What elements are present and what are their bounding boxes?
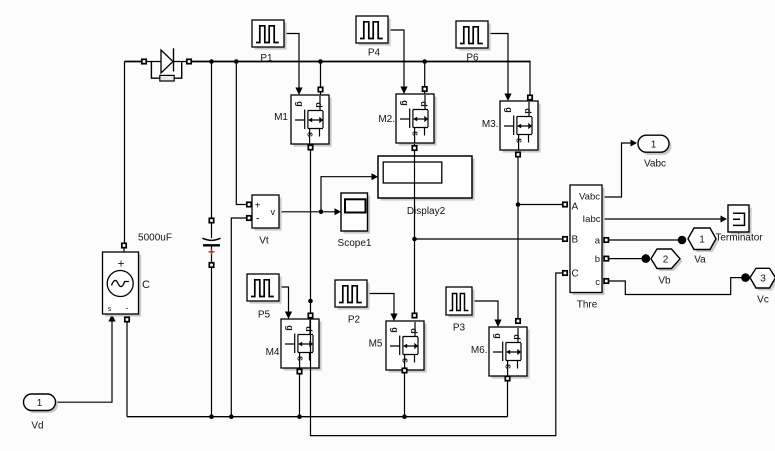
port square Vt plus — [247, 202, 251, 206]
wire: left vertical from bus down to source C top — [124, 62, 126, 245]
port square Thre A — [563, 202, 567, 206]
svg-text:M6.: M6. — [471, 345, 488, 356]
port square M2 source — [412, 146, 416, 150]
svg-text:Display2: Display2 — [407, 206, 446, 217]
wire: top DC bus main segment with drop to M3 drain — [191, 61, 530, 63]
wire: Vt output to Scope1 — [279, 211, 335, 213]
svg-text:M3.: M3. — [482, 119, 499, 130]
pulse generator P2 — [335, 280, 370, 310]
wire: Vd input to source C s-port — [56, 319, 113, 402]
svg-text:Vb: Vb — [658, 276, 671, 287]
svg-text:a: a — [595, 236, 601, 247]
port square M4 source — [297, 369, 301, 373]
wire: bottom negative bus — [127, 416, 508, 418]
svg-text:M4: M4 — [266, 347, 280, 358]
port square M6 source — [505, 376, 509, 380]
junction dot M2 drain top bus — [422, 59, 427, 64]
port square M3 drain — [528, 95, 532, 99]
svg-text:M5: M5 — [369, 339, 383, 350]
display Display2 — [378, 156, 475, 217]
svg-text:Terminator: Terminator — [715, 233, 763, 244]
node dot Vb — [642, 254, 651, 263]
svg-text:1: 1 — [37, 398, 43, 409]
wire: Thre b output to Vb tag — [609, 258, 644, 260]
pulse generator P4 — [356, 16, 391, 46]
arrowhead source C s input — [108, 314, 115, 322]
port square M4 drain — [308, 313, 312, 317]
MOSFET M2 — [396, 94, 437, 146]
svg-text:M2.: M2. — [378, 114, 395, 125]
scope Scope1 — [338, 193, 372, 249]
terminator — [715, 205, 763, 244]
wire: source C bottom to negative bus — [126, 322, 128, 417]
output tag Vc — [750, 268, 775, 305]
port square capacitor top — [209, 218, 213, 222]
junction dot M1 drain top bus — [318, 59, 323, 64]
pulse generator P6 — [456, 21, 491, 51]
diode D with snubber — [146, 48, 187, 81]
svg-text:B: B — [572, 235, 579, 246]
junction on phase B line — [412, 237, 417, 242]
wire: phase A line M1 source through M4 to Thre C input — [311, 144, 563, 436]
port square Thre b — [604, 256, 608, 260]
port square capacitor bottom — [209, 263, 213, 267]
arrowhead M4 gate — [285, 312, 292, 320]
junction dot capacitor top bus — [209, 59, 214, 64]
port square M1 source — [308, 145, 312, 149]
wire: phase B branch to Thre B input — [415, 238, 563, 240]
MOSFET M5 — [386, 321, 427, 373]
node dot Vc — [741, 273, 750, 282]
wire: phase C line M3 source to M6 drain — [517, 152, 519, 324]
output tag Va — [688, 228, 719, 266]
wire: capacitor bottom to negative bus — [211, 246, 213, 417]
wire: P6 output to M3 gate — [488, 34, 508, 96]
output tag Vb — [651, 249, 683, 287]
wire: Thre Vabc output to outport 1 — [602, 143, 631, 197]
wire: M4 source to negative bus — [299, 374, 301, 417]
three-phase measurement Thre — [570, 185, 605, 311]
wire: P1 output to M1 gate — [284, 34, 299, 90]
port square M3 source — [516, 152, 520, 156]
port square M2 drain — [423, 87, 427, 91]
svg-text:P3: P3 — [453, 323, 466, 334]
arrowhead M6 gate — [494, 320, 501, 328]
voltage measurement Vt — [252, 195, 282, 247]
wire: M1 drain from bus — [320, 62, 322, 96]
svg-text:5000uF: 5000uF — [138, 233, 172, 244]
port square Thre c — [604, 279, 608, 283]
svg-text:1: 1 — [651, 140, 657, 151]
inport Vd — [24, 394, 59, 432]
svg-text:+: + — [255, 201, 261, 212]
port square Thre B — [563, 237, 567, 241]
source C (controlled voltage source) — [103, 252, 151, 317]
svg-text:b: b — [595, 254, 600, 265]
wire: branch to Display2 — [321, 177, 372, 212]
port square M5 source — [402, 368, 406, 372]
svg-text:Vc: Vc — [757, 295, 769, 306]
node dot Va — [678, 236, 687, 245]
arrowhead M5 gate — [390, 314, 397, 322]
MOSFET M3 — [500, 101, 541, 153]
junction dot Vt plus top bus — [234, 59, 239, 64]
wire: capacitor top branch from bus — [211, 62, 213, 239]
svg-text:P6: P6 — [466, 53, 479, 64]
junction dot capacitor bottom bus — [209, 414, 214, 419]
pulse generator P1 — [252, 20, 287, 50]
svg-text:Vabc: Vabc — [644, 159, 666, 170]
svg-text:v: v — [271, 207, 276, 217]
svg-text:1: 1 — [699, 235, 705, 246]
MOSFET M1 — [291, 95, 332, 147]
svg-text:P5: P5 — [258, 310, 271, 321]
wire: M2 drain from bus — [424, 62, 426, 95]
svg-text:M1: M1 — [274, 112, 288, 123]
MOSFET M6 — [489, 327, 530, 379]
wire: Thre Iabc output to Terminator — [602, 218, 721, 220]
port square Thre C — [563, 271, 567, 275]
arrowhead Display2 input — [372, 173, 379, 180]
wire: P2 output to M5 gate — [367, 294, 394, 316]
MOSFET M4 — [281, 319, 322, 371]
svg-text:P2: P2 — [348, 315, 361, 326]
svg-text:Thre: Thre — [577, 300, 598, 311]
svg-text:Vd: Vd — [31, 421, 43, 432]
wire: Thre a output to Va tag — [609, 239, 681, 241]
wire: Thre c output to Vc tag — [609, 278, 743, 295]
port square Thre a — [604, 238, 608, 242]
wire: P3 output to M6 gate — [472, 301, 498, 321]
pulse generator P5 — [247, 274, 282, 304]
arrowhead outport Vabc — [631, 140, 638, 147]
junction dot M5 source bottom bus — [402, 414, 407, 419]
svg-text:Vt: Vt — [259, 236, 269, 247]
svg-text:A: A — [572, 202, 579, 213]
wire: Vt minus input from negative bus — [231, 218, 249, 417]
wire: Vt plus input from bus — [236, 62, 249, 205]
port square Vt minus — [247, 216, 251, 220]
svg-text:2: 2 — [663, 255, 669, 266]
svg-text:-: - — [256, 213, 260, 225]
port square diode anode — [142, 59, 146, 63]
port square source C plus — [122, 243, 126, 247]
port square diode cathode — [187, 59, 191, 63]
wire: M6 source to negative bus — [507, 378, 509, 417]
junction on phase C line — [516, 202, 521, 207]
svg-text:Vabc: Vabc — [579, 192, 600, 203]
svg-text:+: + — [117, 257, 124, 271]
svg-text:3: 3 — [760, 274, 766, 285]
junction dot Vt minus bottom bus — [229, 414, 234, 419]
arrowhead Terminator input — [721, 216, 728, 223]
port square M1 drain — [318, 87, 322, 91]
svg-text:C: C — [142, 279, 150, 291]
wire: phase C branch to Thre A input — [518, 204, 563, 206]
svg-text:P1: P1 — [260, 53, 273, 64]
svg-text:C: C — [572, 269, 579, 280]
wire: M5 source to negative bus — [404, 372, 406, 417]
outport 1 Vabc — [638, 135, 672, 169]
port square M6 drain — [516, 319, 520, 323]
port square M5 drain — [412, 313, 416, 317]
wire: P5 output to M4 gate — [279, 287, 289, 313]
wire: phase B line M2 source through Display2 to M5 drain — [414, 144, 416, 318]
svg-text:-: - — [126, 303, 129, 313]
arrowhead M3 gate — [504, 94, 511, 102]
junction on Vt output — [319, 210, 324, 215]
port square source C minus — [125, 317, 129, 321]
svg-text:Iabc: Iabc — [583, 214, 601, 225]
junction dot M4 source bottom bus — [297, 414, 302, 419]
svg-text:Va: Va — [694, 255, 706, 266]
svg-text:c: c — [595, 277, 600, 288]
junction on phase A line — [308, 299, 313, 304]
arrowhead M2 gate — [400, 87, 407, 95]
wire: source C top port stub — [123, 247, 125, 252]
arrowhead Scope1 input — [335, 208, 342, 215]
capacitor 5000uF — [138, 233, 220, 255]
wire: top DC bus left segment — [125, 61, 142, 63]
svg-text:P4: P4 — [368, 48, 381, 59]
arrowhead M1 gate — [295, 88, 302, 96]
svg-text:Scope1: Scope1 — [338, 238, 372, 249]
pulse generator P3 — [446, 287, 475, 334]
wire: P4 output to M2 gate — [388, 30, 404, 88]
svg-text:s: s — [108, 306, 112, 313]
